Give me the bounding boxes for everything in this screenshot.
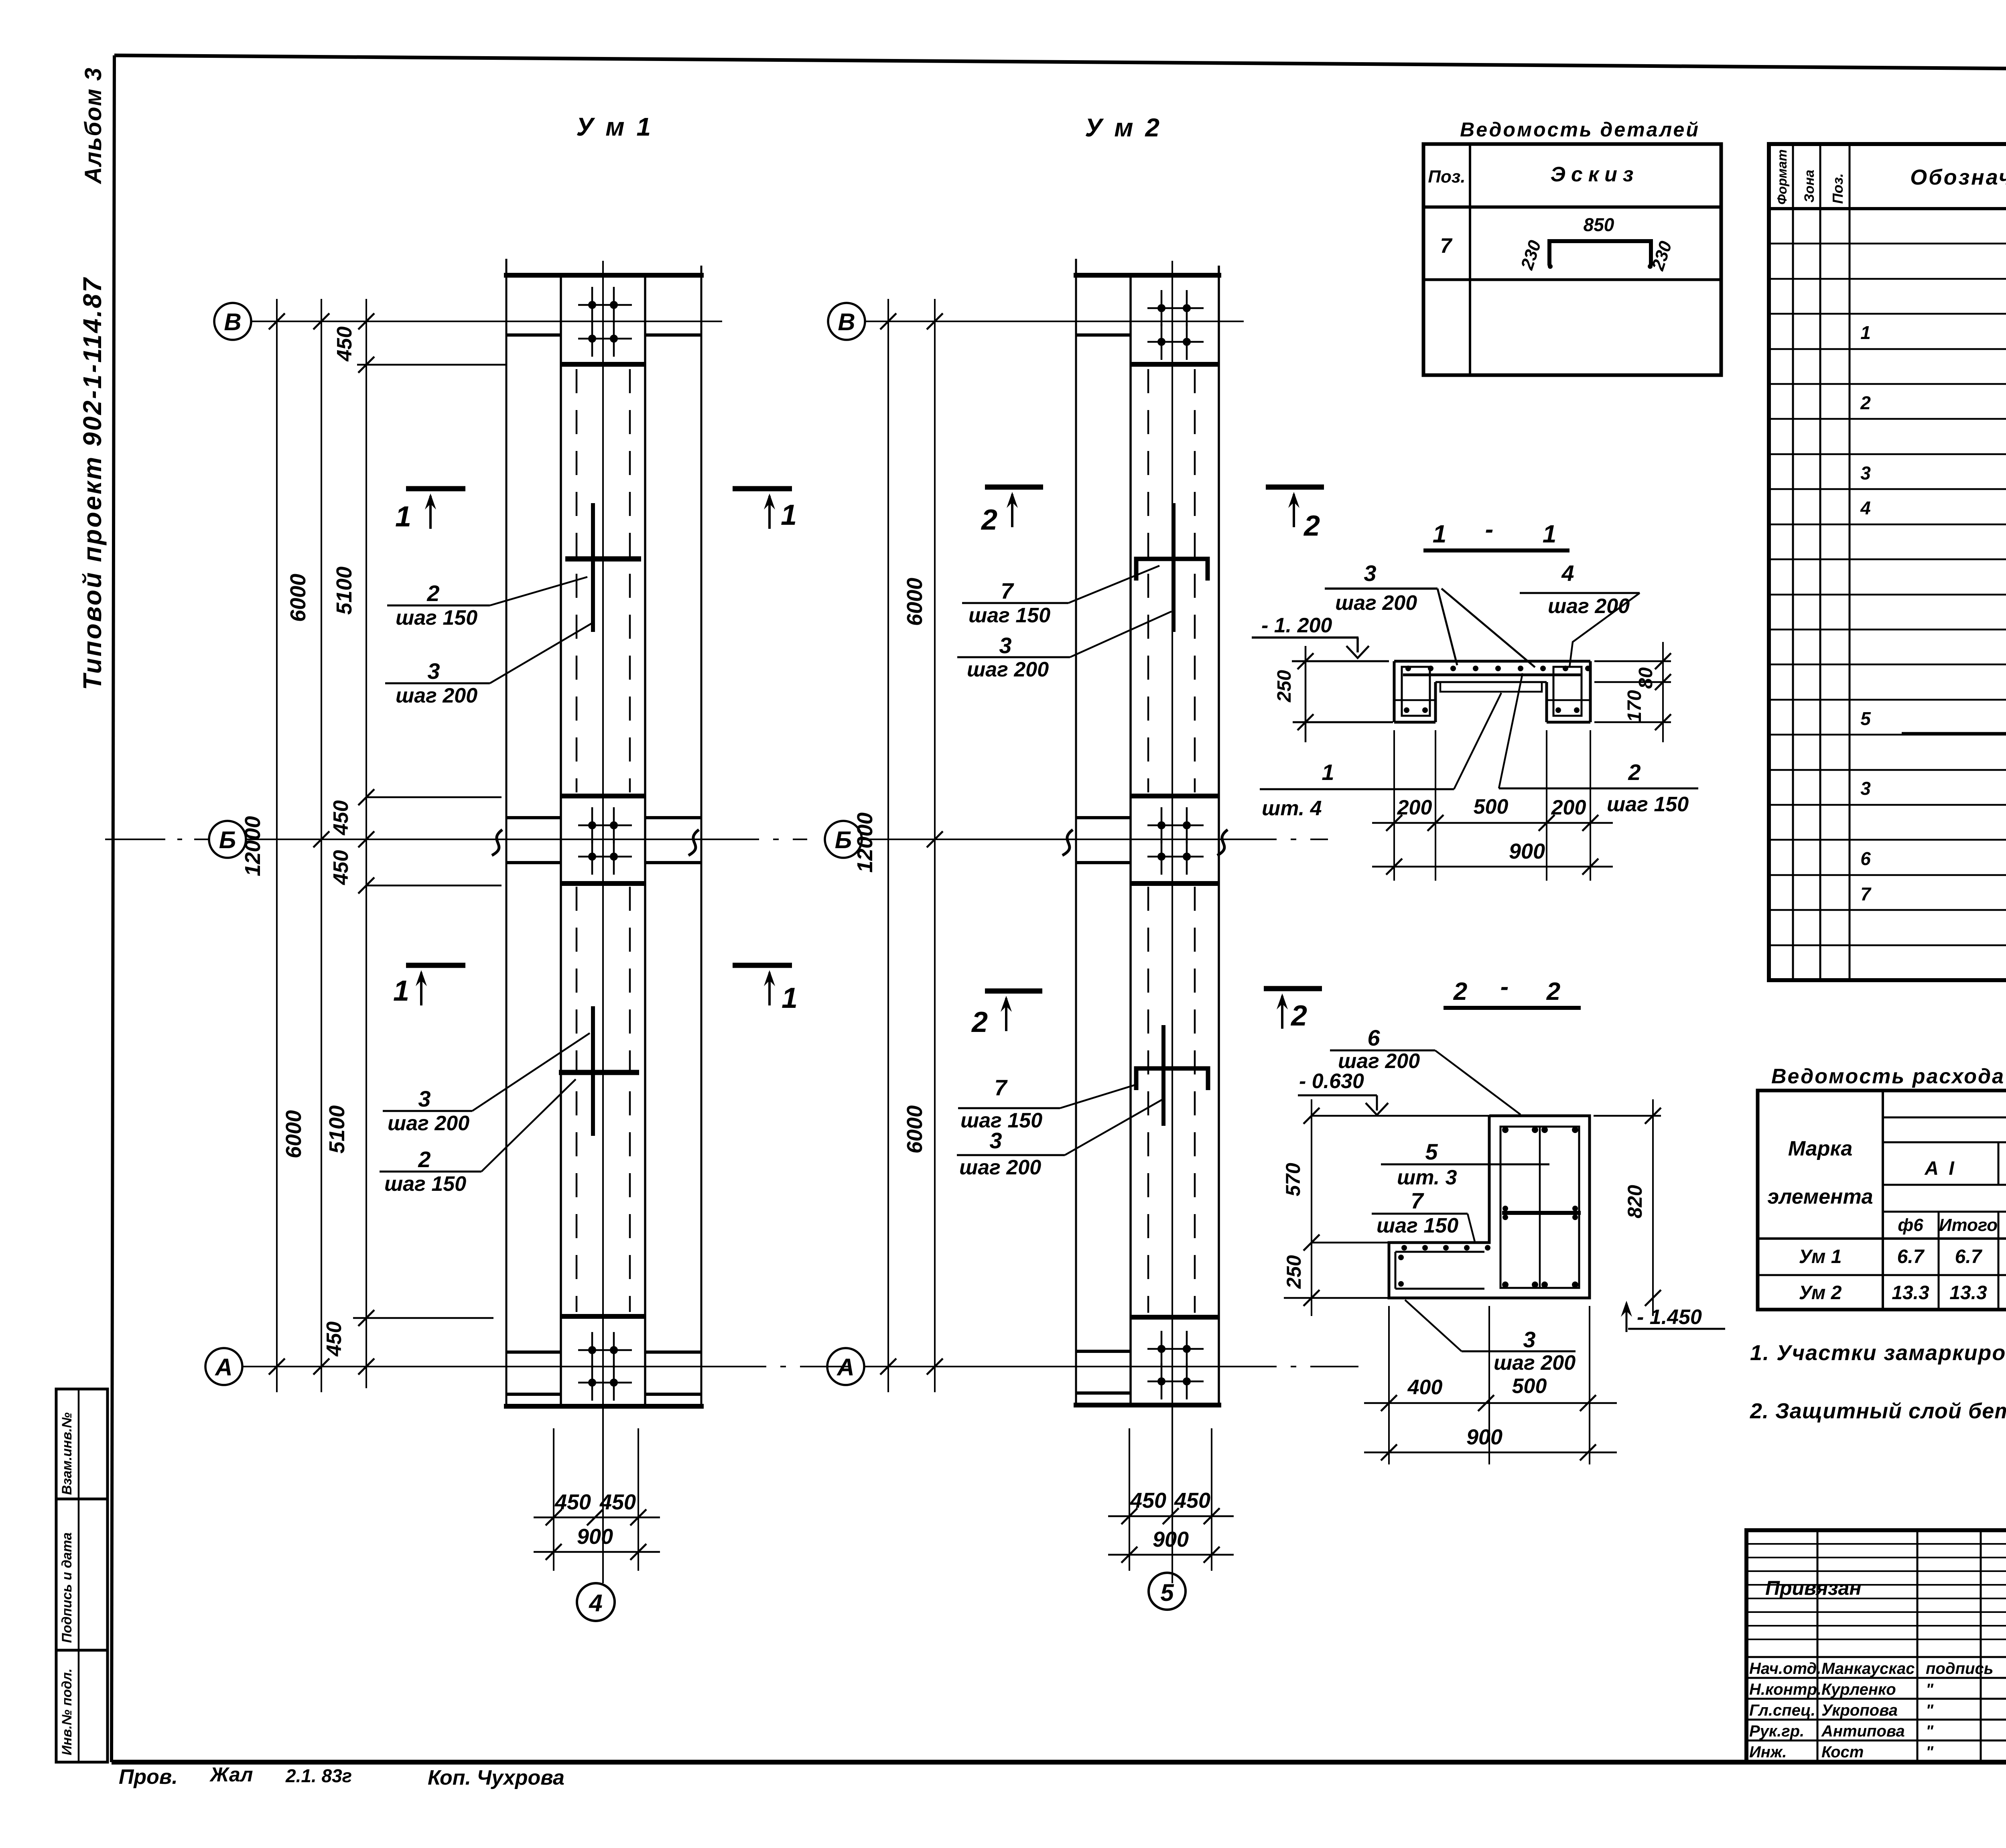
svg-text:шаг 200: шаг 200 [396, 684, 477, 707]
svg-text:У м 1: У м 1 [576, 112, 653, 141]
svg-text:850: 850 [1584, 214, 1614, 235]
svg-text:Жал: Жал [209, 1763, 253, 1786]
svg-text:200: 200 [1551, 796, 1586, 819]
svg-text:элемента: элемента [1767, 1185, 1873, 1208]
svg-text:3: 3 [989, 1128, 1002, 1153]
svg-text:1: 1 [395, 501, 411, 533]
svg-text:Укропова: Укропова [1821, 1702, 1898, 1719]
svg-text:А I: А I [1924, 1158, 1956, 1179]
svg-text:А: А [214, 1354, 232, 1381]
svg-text:Пров.: Пров. [119, 1765, 178, 1789]
svg-text:5100: 5100 [325, 1105, 349, 1153]
svg-text:500: 500 [1474, 795, 1509, 818]
svg-text:": " [1926, 1722, 1934, 1740]
svg-text:4: 4 [589, 1590, 602, 1616]
svg-text:Гл.спец.: Гл.спец. [1749, 1702, 1815, 1719]
svg-text:Зона: Зона [1802, 170, 1817, 203]
svg-text:6: 6 [1860, 848, 1871, 869]
svg-text:2: 2 [418, 1147, 430, 1172]
svg-text:5100: 5100 [332, 567, 356, 615]
svg-text:13.3: 13.3 [1892, 1282, 1929, 1304]
svg-text:Ум 2: Ум 2 [1799, 1282, 1842, 1304]
svg-text:2: 2 [1303, 510, 1320, 542]
svg-text:900: 900 [1153, 1527, 1189, 1552]
svg-text:Марка: Марка [1788, 1137, 1853, 1160]
svg-text:- 1.450: - 1.450 [1637, 1306, 1702, 1329]
svg-text:": " [1926, 1702, 1934, 1719]
svg-text:У м 2: У м 2 [1085, 113, 1162, 142]
svg-text:80: 80 [1635, 667, 1657, 689]
svg-text:шт. 3: шт. 3 [1397, 1166, 1457, 1189]
svg-text:2: 2 [981, 504, 997, 536]
svg-text:Б: Б [835, 827, 852, 853]
svg-text:3: 3 [999, 633, 1011, 658]
svg-text:Формат: Формат [1775, 149, 1789, 205]
svg-text:3: 3 [1860, 463, 1871, 483]
svg-text:250: 250 [1283, 1255, 1305, 1289]
svg-text:3: 3 [427, 658, 440, 684]
svg-text:В: В [838, 309, 855, 335]
svg-text:6000: 6000 [286, 574, 310, 622]
svg-text:450: 450 [329, 850, 353, 885]
svg-text:Рук.гр.: Рук.гр. [1749, 1722, 1804, 1740]
svg-text:900: 900 [1466, 1425, 1502, 1449]
svg-text:Обозначение: Обозначение [1910, 165, 2006, 189]
svg-text:6000: 6000 [282, 1110, 306, 1158]
svg-text:шаг 150: шаг 150 [1377, 1214, 1458, 1237]
svg-text:4: 4 [1561, 560, 1574, 586]
svg-text:200: 200 [1397, 796, 1432, 819]
svg-text:Нач.отд.: Нач.отд. [1749, 1660, 1821, 1677]
svg-text:450: 450 [333, 327, 356, 362]
svg-text:6000: 6000 [903, 578, 927, 626]
svg-text:-: - [1500, 973, 1509, 1001]
svg-text:Кост: Кост [1821, 1743, 1864, 1761]
svg-text:450: 450 [554, 1490, 591, 1514]
svg-text:250: 250 [1274, 670, 1295, 703]
svg-text:Инж.: Инж. [1749, 1743, 1787, 1761]
svg-text:1: 1 [393, 975, 409, 1007]
svg-text:1: 1 [1860, 322, 1871, 343]
svg-text:- 1. 200: - 1. 200 [1261, 614, 1332, 637]
svg-text:Поз.: Поз. [1428, 167, 1465, 187]
svg-text:12000: 12000 [241, 816, 265, 876]
svg-text:Привязан: Привязан [1765, 1577, 1862, 1599]
svg-text:7: 7 [1860, 883, 1872, 904]
svg-text:шаг 200: шаг 200 [1335, 591, 1417, 615]
svg-text:6000: 6000 [903, 1105, 927, 1153]
svg-text:Манкаускас: Манкаускас [1821, 1660, 1915, 1677]
svg-text:5: 5 [1425, 1139, 1438, 1164]
svg-text:400: 400 [1407, 1376, 1443, 1399]
svg-text:ф6: ф6 [1898, 1215, 1923, 1235]
svg-text:6.7: 6.7 [1897, 1246, 1925, 1267]
svg-text:Инв.№ подл.: Инв.№ подл. [59, 1668, 75, 1755]
svg-text:7: 7 [1001, 578, 1014, 603]
svg-text:подпись: подпись [1926, 1660, 1993, 1677]
svg-text:Типовой проект 902-1-114.87: Типовой проект 902-1-114.87 [78, 276, 107, 690]
svg-text:шаг 200: шаг 200 [959, 1156, 1041, 1179]
svg-text:3: 3 [1860, 778, 1871, 799]
svg-text:В: В [224, 309, 241, 335]
svg-text:2: 2 [971, 1006, 988, 1038]
svg-text:шаг 200: шаг 200 [1494, 1351, 1576, 1375]
svg-text:Ведомость деталей: Ведомость деталей [1460, 118, 1700, 141]
svg-text:Эскиз: Эскиз [1551, 163, 1639, 186]
svg-text:1: 1 [1322, 760, 1334, 785]
svg-text:": " [1926, 1743, 1934, 1761]
svg-text:шаг 150: шаг 150 [396, 606, 477, 630]
svg-text:6.7: 6.7 [1955, 1246, 1983, 1267]
svg-text:2: 2 [426, 581, 439, 606]
svg-text:1: 1 [1433, 520, 1446, 548]
svg-text:Б: Б [219, 827, 236, 853]
svg-text:1. Участки замаркированы на ли: 1. Участки замаркированы на листе 15. [1750, 1341, 2006, 1365]
svg-text:7: 7 [1411, 1188, 1424, 1213]
svg-text:1: 1 [1543, 520, 1556, 548]
svg-text:450: 450 [599, 1490, 636, 1514]
svg-text:Коп. Чухрова: Коп. Чухрова [428, 1766, 564, 1789]
svg-text:Ведомость расхода стали на эле: Ведомость расхода стали на элемент, кг [1771, 1065, 2006, 1088]
svg-text:450: 450 [1174, 1489, 1210, 1513]
svg-text:А: А [836, 1354, 854, 1381]
svg-text:7: 7 [1440, 234, 1453, 258]
svg-text:570: 570 [1282, 1163, 1304, 1196]
svg-text:Н.контр.: Н.контр. [1749, 1681, 1821, 1698]
svg-text:шаг 200: шаг 200 [388, 1112, 469, 1135]
svg-text:450: 450 [1130, 1489, 1166, 1513]
svg-text:2. Защитный слой бетона для ра: 2. Защитный слой бетона для рабочей арма… [1750, 1399, 2006, 1423]
svg-text:170: 170 [1624, 690, 1645, 722]
svg-text:2.1. 83г: 2.1. 83г [285, 1765, 352, 1786]
svg-text:6: 6 [1367, 1025, 1380, 1050]
svg-text:шаг 150: шаг 150 [384, 1172, 466, 1196]
svg-text:820: 820 [1624, 1185, 1646, 1218]
svg-text:шаг 200: шаг 200 [1548, 595, 1630, 618]
svg-text:12000: 12000 [853, 812, 877, 873]
svg-text:7: 7 [994, 1075, 1008, 1100]
svg-text:Поз.: Поз. [1829, 173, 1846, 204]
svg-text:3: 3 [1364, 560, 1376, 586]
svg-text:Антипова: Антипова [1821, 1722, 1905, 1740]
svg-text:Ум 1: Ум 1 [1799, 1246, 1842, 1267]
svg-text:2: 2 [1628, 760, 1641, 785]
svg-text:2: 2 [1546, 978, 1560, 1005]
svg-text:2: 2 [1860, 392, 1871, 413]
svg-text:шаг 200: шаг 200 [1338, 1050, 1420, 1073]
svg-text:900: 900 [577, 1525, 613, 1549]
svg-text:5: 5 [1160, 1579, 1174, 1606]
svg-text:2: 2 [1290, 1000, 1307, 1032]
svg-text:1: 1 [781, 499, 797, 531]
svg-text:Курленко: Курленко [1821, 1681, 1896, 1698]
svg-text:2: 2 [1453, 978, 1467, 1005]
svg-text:450: 450 [329, 800, 353, 836]
svg-text:шт. 4: шт. 4 [1262, 797, 1322, 820]
svg-text:Взам.инв.№: Взам.инв.№ [59, 1412, 75, 1495]
svg-text:шаг 150: шаг 150 [1607, 793, 1689, 816]
svg-text:5: 5 [1860, 708, 1871, 729]
svg-text:-: - [1485, 516, 1494, 543]
svg-text:3: 3 [1523, 1327, 1535, 1352]
svg-text:Альбом 3: Альбом 3 [80, 67, 106, 185]
svg-text:- 0.630: - 0.630 [1299, 1070, 1364, 1093]
svg-text:450: 450 [323, 1322, 346, 1357]
svg-text:Итого: Итого [1939, 1215, 1998, 1235]
svg-text:шаг 200: шаг 200 [967, 658, 1049, 681]
svg-text:4: 4 [1860, 498, 1871, 518]
svg-text:13.3: 13.3 [1949, 1282, 1987, 1304]
svg-text:Подпись и дата: Подпись и дата [59, 1532, 75, 1643]
svg-text:900: 900 [1509, 839, 1545, 863]
svg-text:": " [1926, 1681, 1934, 1698]
svg-text:500: 500 [1512, 1375, 1547, 1398]
svg-text:1: 1 [782, 982, 798, 1014]
svg-text:3: 3 [418, 1086, 430, 1111]
svg-text:шаг 150: шаг 150 [968, 604, 1050, 627]
